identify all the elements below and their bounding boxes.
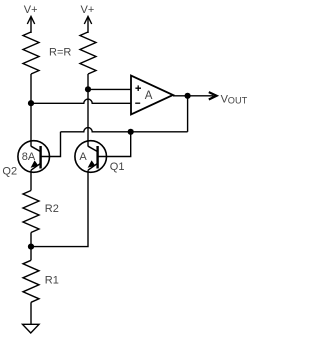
wire right rail to node bbox=[87, 74, 89, 89]
wire R1 to ground bbox=[30, 302, 32, 324]
svg-text:V+: V+ bbox=[24, 4, 38, 16]
transistor Q2 bbox=[18, 141, 50, 173]
resistor R (right) bbox=[80, 32, 96, 74]
wire left rail down to Q2 collector bbox=[30, 103, 32, 146]
svg-text:R1: R1 bbox=[45, 275, 59, 287]
wire Q1 emitter down and left to node bbox=[31, 170, 88, 246]
ground bbox=[23, 324, 40, 333]
resistor R (left) bbox=[23, 32, 39, 74]
wire Q2 emitter to R2 bbox=[30, 170, 32, 190]
svg-text:Q2: Q2 bbox=[2, 166, 17, 178]
node left (R / Q2 collector / op-amp minus) bbox=[28, 100, 34, 106]
wire plus input bbox=[88, 88, 131, 90]
svg-text:OUT: OUT bbox=[228, 95, 248, 105]
transistor Q1 bbox=[75, 141, 107, 173]
wire right rail down to Q1 collector bbox=[87, 89, 89, 146]
wire R2 to node bbox=[30, 233, 32, 247]
svg-text:Q1: Q1 bbox=[110, 161, 125, 173]
svg-text:R2: R2 bbox=[45, 203, 59, 215]
node base junction bbox=[128, 129, 134, 135]
svg-text:V+: V+ bbox=[81, 4, 95, 16]
wire Q1 base riser bbox=[98, 132, 131, 157]
V+ supply left bbox=[27, 17, 34, 34]
node right (R / Q1 collector / op-amp plus) bbox=[85, 86, 91, 92]
wire feedback to bases with hop over right rail bbox=[61, 128, 188, 132]
resistor R2 bbox=[23, 191, 39, 233]
node R2/R1 junction bbox=[28, 244, 34, 250]
wire left rail to node bbox=[30, 74, 32, 103]
op-amp A bbox=[131, 76, 173, 115]
wire minus input with hop over right rail bbox=[31, 99, 131, 103]
wire feedback down from output node bbox=[187, 96, 189, 132]
svg-text:R=R: R=R bbox=[49, 46, 71, 58]
svg-text:A: A bbox=[79, 151, 87, 163]
V+ supply right bbox=[84, 17, 91, 34]
arrow to VOUT bbox=[209, 92, 217, 99]
wire node to R1 bbox=[30, 247, 32, 261]
resistor R1 bbox=[23, 260, 39, 302]
node output bbox=[185, 93, 191, 99]
svg-text:8A: 8A bbox=[22, 151, 36, 163]
svg-text:A: A bbox=[145, 90, 153, 102]
wire Q2 base riser bbox=[41, 132, 61, 157]
wire op-amp output bbox=[173, 95, 214, 97]
